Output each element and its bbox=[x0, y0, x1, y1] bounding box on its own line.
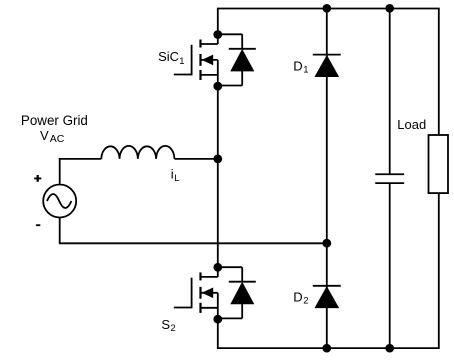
svg-text:D: D bbox=[293, 58, 302, 73]
svg-text:Load: Load bbox=[397, 117, 426, 132]
svg-text:1: 1 bbox=[179, 56, 184, 67]
svg-text:AC: AC bbox=[50, 133, 65, 145]
svg-text:2: 2 bbox=[303, 296, 308, 307]
svg-text:1: 1 bbox=[303, 65, 308, 76]
svg-text:V: V bbox=[40, 128, 49, 143]
svg-text:Power Grid: Power Grid bbox=[21, 113, 88, 128]
svg-text:L: L bbox=[174, 173, 179, 184]
svg-text:2: 2 bbox=[170, 323, 175, 334]
svg-text:S: S bbox=[161, 317, 170, 332]
svg-text:SiC: SiC bbox=[158, 49, 179, 64]
svg-text:D: D bbox=[293, 290, 302, 305]
